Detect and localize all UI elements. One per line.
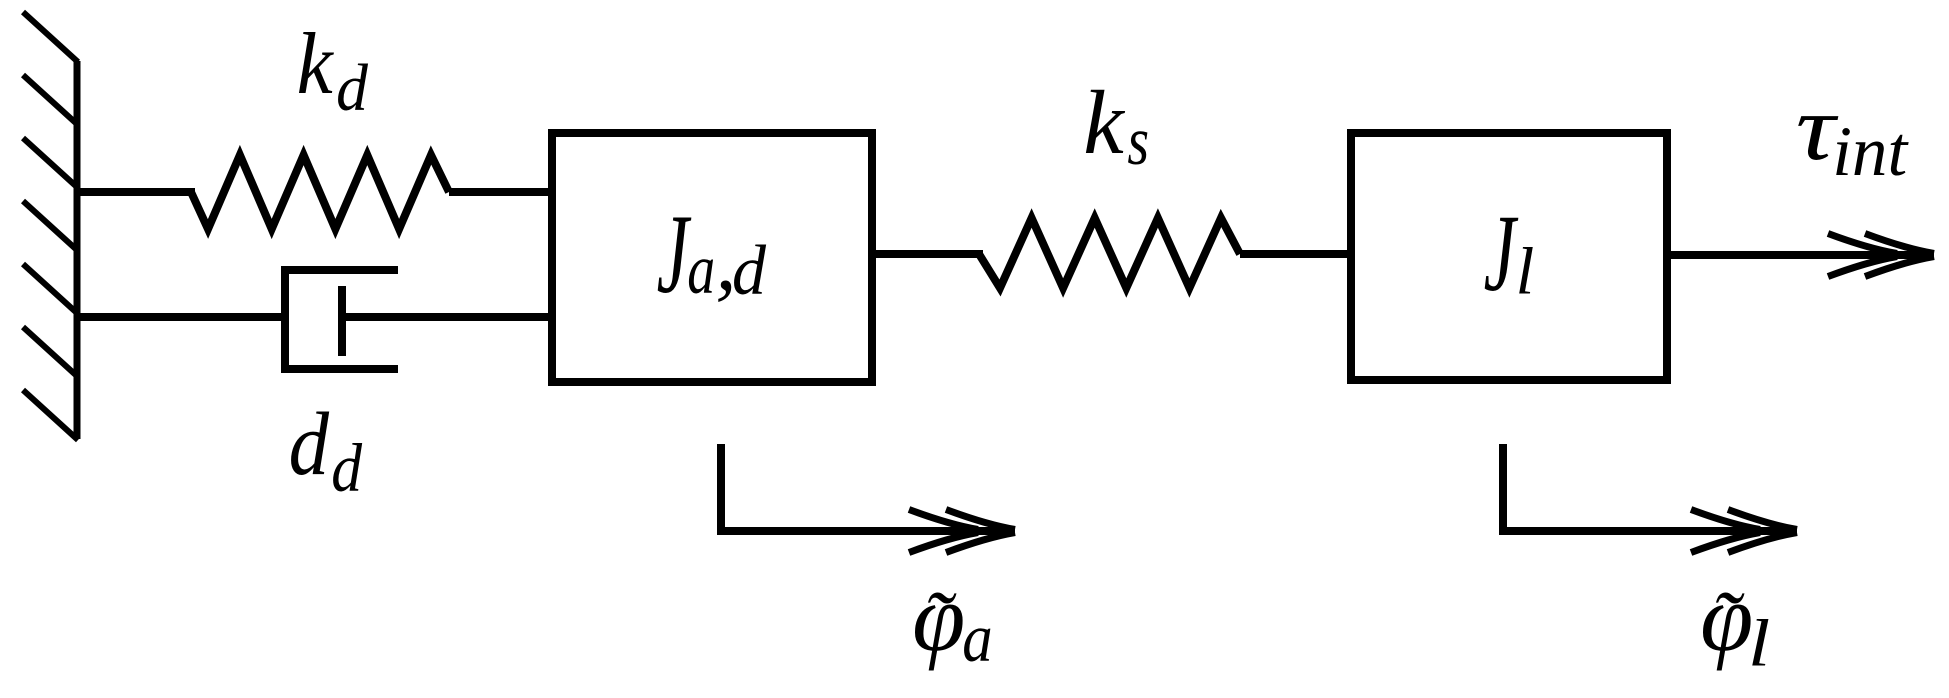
wall vertical line: [74, 61, 81, 439]
wire box Ja,d to spring ks: [872, 250, 983, 258]
wire wall to damper dd: [74, 313, 285, 321]
svg-text:k: k: [297, 15, 335, 113]
mass box Jl: [1351, 133, 1667, 380]
damper cylinder: [285, 270, 398, 369]
svg-text:int: int: [1832, 113, 1909, 191]
svg-text:d: d: [331, 430, 362, 506]
wall hatch 5: [23, 264, 78, 314]
angle arrow phi_a : horizontal: [717, 527, 1015, 535]
svg-text:d: d: [336, 51, 368, 125]
wall hatch 3: [23, 138, 78, 188]
svg-text:k: k: [1083, 72, 1125, 173]
wire spring ks to box Jl: [1240, 250, 1351, 258]
wire wall to spring kd: [74, 188, 195, 196]
angle arrow phi_l : horizontal: [1499, 527, 1797, 535]
wall hatch 6: [23, 327, 78, 377]
arrowhead phi_a: [909, 510, 1015, 553]
svg-text:d: d: [732, 232, 766, 310]
damper piston rod to box Ja,d: [342, 313, 552, 321]
svg-text:l: l: [1516, 235, 1535, 309]
angle arrow phi_l : vertical: [1499, 444, 1507, 535]
svg-text:s: s: [1127, 103, 1149, 179]
svg-text:a: a: [962, 600, 992, 676]
wall hatch 1: [23, 12, 78, 62]
svg-text:J: J: [1484, 192, 1519, 314]
spring kd zigzag: [191, 155, 449, 229]
angle arrow phi_a : vertical: [717, 444, 725, 535]
spring ks zigzag: [979, 218, 1240, 288]
wire box Jl to arrow tau_int: [1667, 251, 1934, 259]
svg-text:l: l: [1748, 607, 1770, 681]
arrowhead tau_int: [1828, 234, 1934, 277]
arrowhead phi_l: [1691, 510, 1797, 553]
wall hatch 7: [23, 390, 78, 440]
damper piston: [338, 286, 346, 356]
mass box Ja,d: [552, 133, 872, 382]
wall hatch 2: [23, 75, 78, 125]
svg-text:d: d: [289, 395, 330, 494]
svg-text:a: a: [687, 231, 715, 309]
wire spring kd to box Ja,d: [449, 188, 552, 196]
wall hatch 4: [23, 201, 78, 251]
